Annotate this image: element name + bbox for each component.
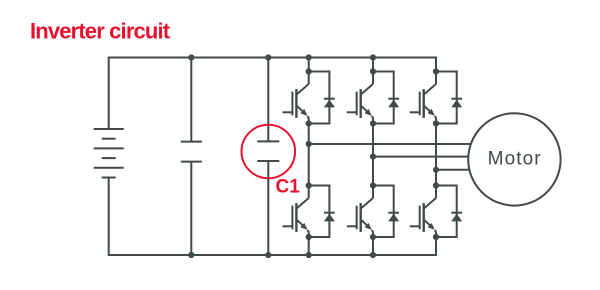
junction bottom bus leg 2 xyxy=(370,252,376,258)
svg-text:Motor: Motor xyxy=(488,149,542,170)
transistor Q1 xyxy=(283,84,309,118)
diode D1 xyxy=(324,99,335,108)
top DC bus wire xyxy=(109,58,436,130)
diode D2 xyxy=(388,99,399,108)
junction emitter Q4 xyxy=(306,234,312,240)
junction collector Q4 xyxy=(306,182,312,188)
diode D3 xyxy=(451,99,462,108)
junction bottom bus at C xyxy=(188,252,194,258)
wire diode branch bottom cell 2 xyxy=(373,186,394,238)
junction collector Q1 xyxy=(306,68,312,74)
transistor Q4 xyxy=(283,198,309,232)
transistor Q3 xyxy=(410,84,436,118)
junction collector Q6 xyxy=(433,182,439,188)
wire phase W to motor xyxy=(436,169,471,171)
transistor Q5 xyxy=(347,198,373,232)
wire diode branch top cell 2 xyxy=(373,72,394,124)
junction emitter Q3 xyxy=(433,120,439,126)
junction top bus leg 1 xyxy=(306,54,312,60)
svg-text:Inverter circuit: Inverter circuit xyxy=(30,19,171,44)
capacitor C1 xyxy=(257,58,279,256)
junction collector Q3 xyxy=(433,68,439,74)
junction bottom bus leg 1 xyxy=(306,252,312,258)
node phase W xyxy=(433,167,439,173)
junction emitter Q2 xyxy=(370,120,376,126)
motor M1 xyxy=(468,113,560,205)
wire diode branch top cell 3 xyxy=(436,72,457,124)
node phase U xyxy=(306,141,312,147)
junction emitter Q6 xyxy=(433,234,439,240)
transistor Q6 xyxy=(410,198,436,232)
wire leg 1 vertical xyxy=(308,58,310,256)
node phase V xyxy=(370,154,376,160)
wire diode branch bottom cell 3 xyxy=(436,186,457,238)
transistor Q2 xyxy=(347,84,373,118)
junction emitter Q5 xyxy=(370,234,376,240)
junction top bus leg 2 xyxy=(370,54,376,60)
svg-text:C1: C1 xyxy=(276,177,301,198)
capacitor C (DC-link) xyxy=(181,58,202,256)
junction emitter Q1 xyxy=(306,120,312,126)
junction collector Q5 xyxy=(370,182,376,188)
wire leg 2 vertical xyxy=(372,58,374,256)
junction top bus at C xyxy=(188,54,194,60)
wire diode branch top cell 1 xyxy=(309,72,330,124)
junction bottom bus at C1 xyxy=(265,252,271,258)
diode D6 xyxy=(451,213,462,222)
battery B1 xyxy=(94,129,124,178)
wire diode branch bottom cell 1 xyxy=(309,186,330,238)
diode D4 xyxy=(324,213,335,222)
junction top bus at C1 xyxy=(265,54,271,60)
diode D5 xyxy=(388,213,399,222)
wire phase V to motor xyxy=(373,156,470,158)
junction collector Q2 xyxy=(370,68,376,74)
bottom DC bus wire xyxy=(109,178,436,256)
wire leg 3 vertical xyxy=(435,72,437,238)
highlight circle around C1 xyxy=(241,125,295,179)
wire phase U to motor xyxy=(309,143,472,145)
